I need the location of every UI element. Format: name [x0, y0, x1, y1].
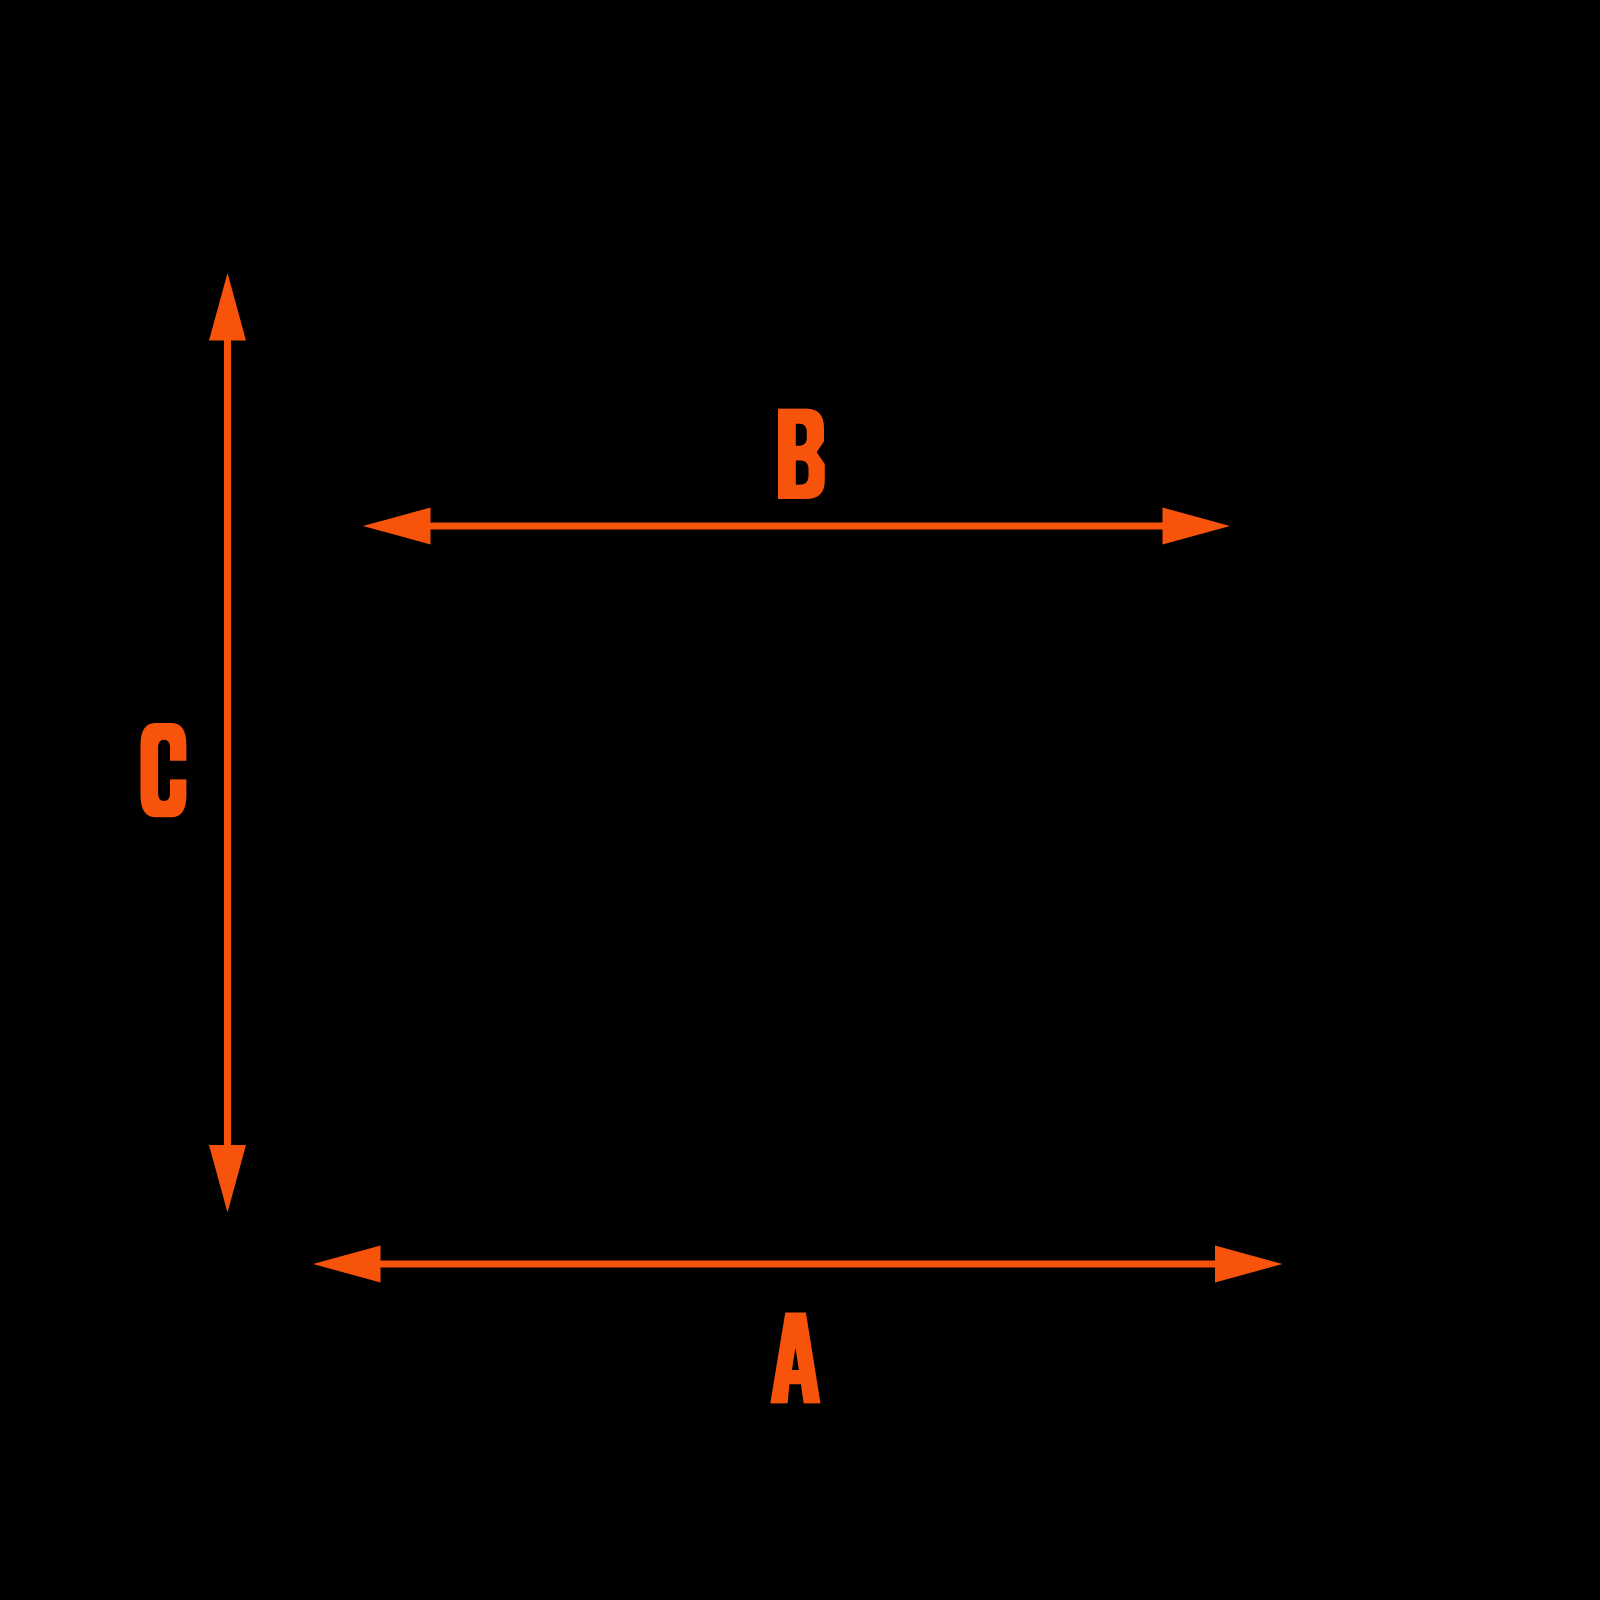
dimension arrow C (vertical double-headed) — [209, 273, 246, 1213]
dimension arrow B (horizontal double-headed) — [363, 508, 1230, 545]
label A — [770, 1313, 820, 1404]
label C — [141, 723, 187, 817]
dimension arrow A (horizontal double-headed) — [313, 1246, 1283, 1283]
label B — [778, 409, 825, 499]
